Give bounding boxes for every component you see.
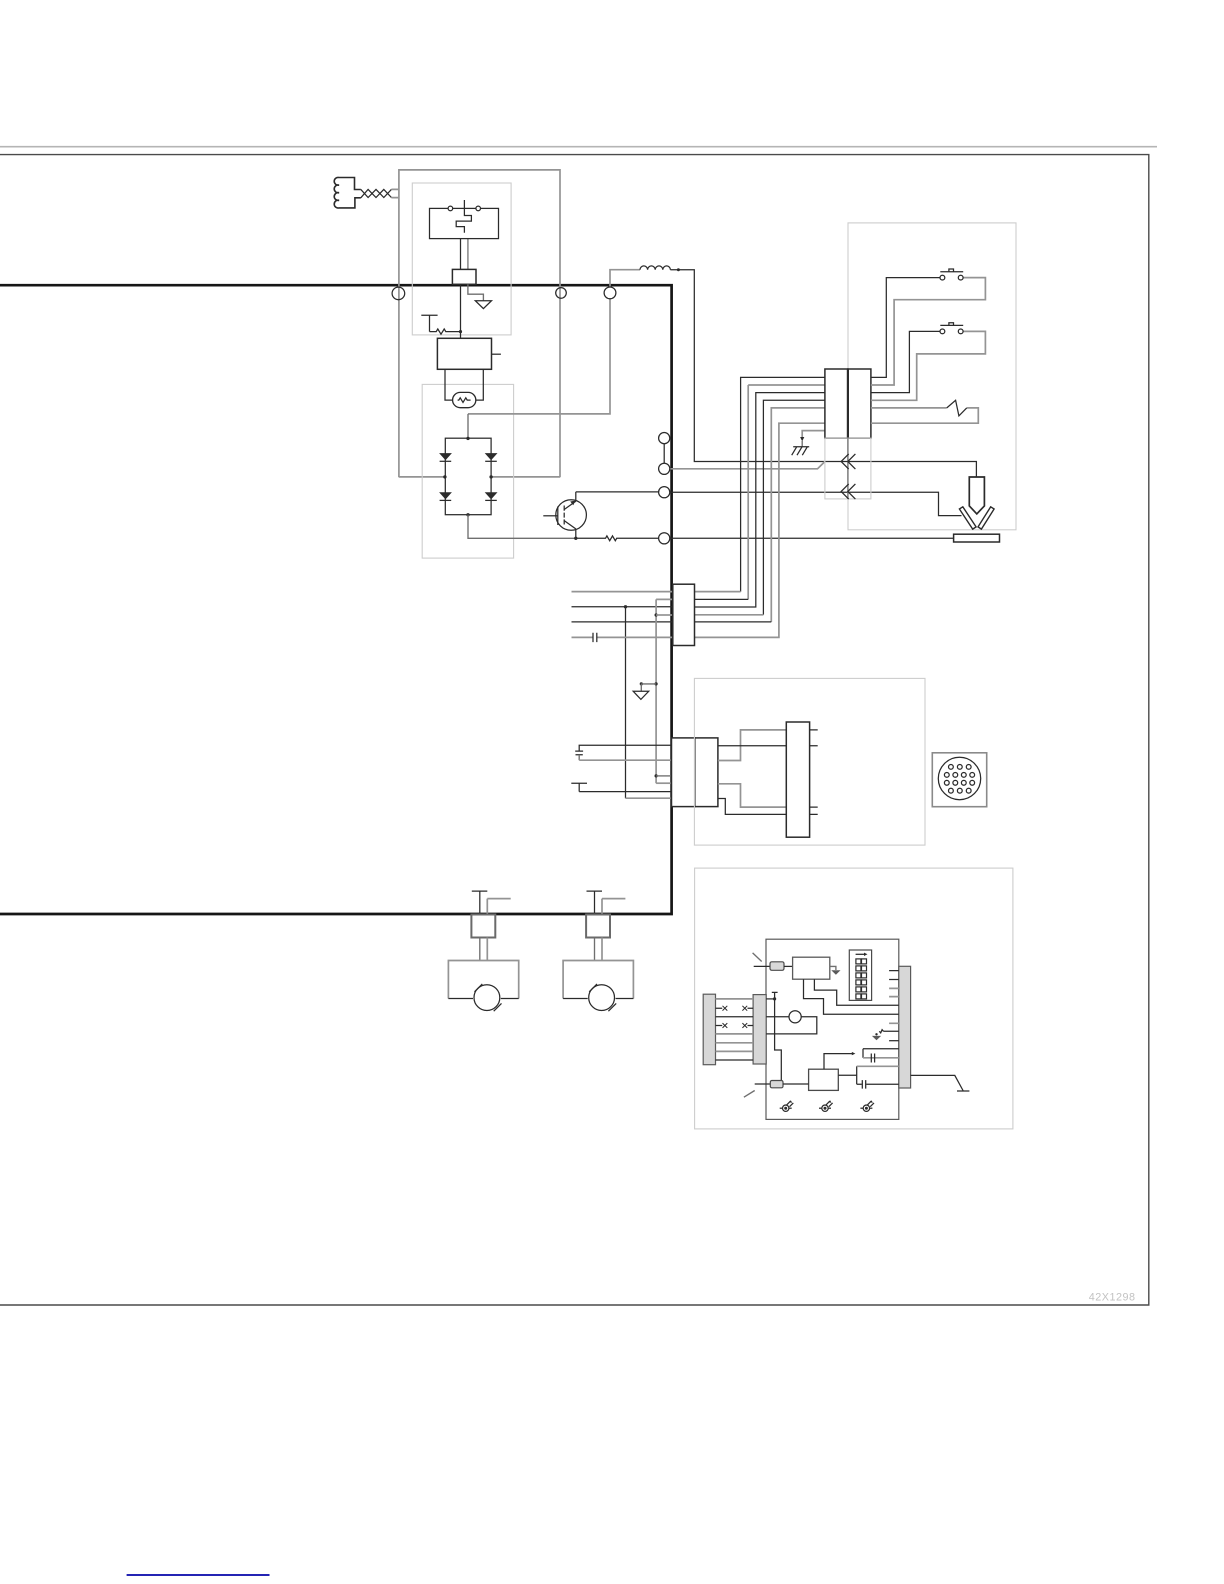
connector arrows (pair 2) xyxy=(841,484,855,499)
frame lead xyxy=(911,1075,970,1091)
edge connector stubs xyxy=(889,971,899,980)
connector J2 xyxy=(825,369,871,438)
spark gap bar xyxy=(954,534,1000,542)
engine boundary xyxy=(0,285,672,914)
ground (board) xyxy=(875,1033,877,1035)
page top rule xyxy=(0,146,1157,148)
node: coil primary junction xyxy=(459,330,462,333)
ignition armature boot xyxy=(334,177,399,208)
wire: J3 to J4 pin3 xyxy=(718,784,786,807)
node: ground bus arrow tap xyxy=(655,682,658,685)
grommet (right) xyxy=(604,287,616,299)
breaker points xyxy=(430,200,499,239)
timer box xyxy=(809,1069,839,1090)
wire: coil to spark plug (left) xyxy=(445,369,453,400)
cable wire 3 xyxy=(716,1016,754,1018)
condenser capacitor xyxy=(421,315,437,331)
ground (condenser) xyxy=(475,301,491,309)
grommet (mid) xyxy=(556,288,567,299)
edge connector bar xyxy=(899,966,911,1088)
wire: J2 to switch S1 left xyxy=(871,278,940,378)
diode D4 xyxy=(485,492,498,499)
ground stub with noise filter xyxy=(879,1030,899,1033)
wire: grommet4 to gap bar xyxy=(670,537,954,539)
connector J2 mating box xyxy=(825,438,871,499)
spark tester electrode xyxy=(969,477,984,514)
indicator loop with lamp xyxy=(766,1011,817,1034)
wire: lead B branch to connector J3 xyxy=(625,607,627,798)
switch S1 xyxy=(940,269,963,280)
coil terminal stub xyxy=(492,353,501,355)
wire: J2 to switch S2 right loop xyxy=(871,331,986,400)
wire: IC to edge bus 1 xyxy=(804,979,899,1014)
stator lead B xyxy=(572,606,673,608)
resistor R1 xyxy=(576,536,659,541)
J4 pin stubs xyxy=(810,730,818,815)
switch S2 xyxy=(940,323,963,334)
harness bundle wire 5 xyxy=(771,408,825,622)
harness bundle wire 1 xyxy=(741,377,825,591)
stator lead D xyxy=(572,636,673,638)
cable connector bar 2 xyxy=(753,995,766,1064)
connector J4 xyxy=(786,722,809,837)
wire: collector to grommet xyxy=(576,491,659,493)
ignition coil xyxy=(437,338,491,369)
terminal stub T xyxy=(571,783,587,791)
wire: condenser to ground xyxy=(468,284,484,301)
node: ground bus pin2 xyxy=(655,613,658,616)
node: bridge bottom xyxy=(466,513,469,516)
node: bridge right xyxy=(489,475,492,478)
stator lead A xyxy=(572,591,673,593)
wire: bridge AC tap left xyxy=(399,476,445,478)
wire: J3 capacitor loop top xyxy=(579,745,671,751)
chassis ground xyxy=(792,447,810,455)
cable wire 7 xyxy=(716,1050,754,1052)
transistor Q1 xyxy=(543,492,586,538)
grommet (left) xyxy=(392,287,405,300)
wire: grommet to bridge input xyxy=(468,299,610,414)
stator lead C xyxy=(572,621,673,623)
wire: inductor to connector (kill line) xyxy=(670,270,976,478)
connector mating line xyxy=(847,438,849,499)
grommet 3 xyxy=(659,487,670,498)
connector J3 xyxy=(672,738,718,807)
spark tester clip left blade xyxy=(959,507,976,529)
node: ground bus J3 tap xyxy=(655,774,658,777)
timer output network xyxy=(838,1066,856,1084)
wire: coil to spark plug (right) xyxy=(476,369,484,400)
regulator IC box xyxy=(793,957,830,979)
cable wire 1 xyxy=(716,998,754,1000)
spark tester clip right blade xyxy=(978,507,994,529)
diode D3 xyxy=(439,492,452,499)
braided lead xyxy=(361,189,392,197)
capacitor C2 xyxy=(593,633,597,642)
wire: grommet1 to grommet2 xyxy=(663,444,665,464)
grommet 2 xyxy=(659,463,670,474)
wire: stub to J3 xyxy=(579,791,671,793)
resistor block 2 xyxy=(755,1083,771,1085)
node: lead B branch xyxy=(624,605,627,608)
diode D2 xyxy=(485,453,498,460)
arrow lead xyxy=(824,1054,852,1070)
input wire xyxy=(754,965,770,967)
test point T xyxy=(772,992,782,1080)
wire: J3 capacitor loop bottom xyxy=(578,755,580,760)
node: bridge left xyxy=(443,475,446,478)
solenoid 2 xyxy=(563,891,633,1011)
cable wire 2 (twisted) xyxy=(716,1006,754,1011)
resistor block 1 xyxy=(770,962,784,971)
wire: grommet to inductor xyxy=(610,270,640,287)
circuit board xyxy=(766,939,899,1119)
breaker points module box xyxy=(412,183,511,335)
capacitor C4 xyxy=(871,1054,874,1063)
connector arrows (pair 1) xyxy=(841,454,855,469)
wire: grommet3 to spark tester clip xyxy=(670,492,962,515)
capacitor C3 xyxy=(575,751,583,755)
DIP switch block xyxy=(849,950,871,1000)
LED 1 xyxy=(780,1100,794,1111)
ground bus wire xyxy=(656,599,672,783)
wire: J2 to switch S2 left xyxy=(871,331,940,392)
svg-text:42X1298: 42X1298 xyxy=(1089,1292,1136,1304)
cable wire 6 xyxy=(716,1042,754,1044)
cable wire 8 xyxy=(716,1059,754,1061)
lower harness box xyxy=(694,678,925,845)
wire: IC to edge bus 2 xyxy=(814,979,898,1005)
wire: J2 to switch S1 right loop xyxy=(871,278,986,385)
wire: J3 to J4 pin2 xyxy=(718,745,786,747)
condenser xyxy=(452,269,476,284)
capacitor stage upper xyxy=(863,1049,899,1058)
spark plug xyxy=(453,392,476,407)
resistor (kill lead) xyxy=(430,329,461,334)
round connector J5 xyxy=(932,753,986,807)
LED 3 xyxy=(860,1100,874,1111)
wire: J3 to J4 pin4 xyxy=(718,799,786,815)
cable wire 4 (twisted) xyxy=(716,1023,754,1028)
bridge rectifier xyxy=(439,437,497,517)
node: inductor output xyxy=(677,268,680,271)
grommet 4 xyxy=(659,533,670,544)
harness bundle wire 2 xyxy=(748,385,825,599)
cable wire 5 xyxy=(716,1033,754,1035)
rectifier module box xyxy=(422,384,513,558)
capacitor C5 xyxy=(862,1080,865,1089)
footer link line xyxy=(127,1574,270,1576)
inductor xyxy=(640,266,670,270)
wire: points to coil primary xyxy=(460,239,462,339)
conductor break symbol xyxy=(947,400,967,416)
connector J1 xyxy=(673,584,695,645)
connector J2 ground lead xyxy=(802,431,825,438)
wire: J3 to J4 pin1 xyxy=(718,730,786,761)
ground (stator) xyxy=(633,691,649,699)
wire: J2 interrupted loop xyxy=(871,408,978,423)
ground (IC) xyxy=(830,966,836,970)
grommet 1 xyxy=(659,433,670,444)
cable connector bar 1 xyxy=(703,994,715,1064)
harness bundle wire 6 xyxy=(695,423,825,637)
node: emitter junction xyxy=(574,537,577,540)
wire: bridge AC tap right xyxy=(491,476,560,478)
LED 2 xyxy=(819,1100,833,1111)
solenoid 1 xyxy=(448,891,518,1011)
output lead diagonal xyxy=(744,1091,755,1098)
diode D1 xyxy=(439,453,452,460)
control module box xyxy=(848,223,1016,530)
kill-circuit wire loop (left leg, top, right leg) xyxy=(399,170,560,477)
wire: grommet to connector (diagonal join) xyxy=(670,462,825,469)
controller assembly box xyxy=(695,868,1013,1129)
wire: bridge output to transistor emitter xyxy=(468,515,576,539)
wire: points to condenser/ground xyxy=(467,239,469,270)
node: bridge top xyxy=(466,437,469,440)
harness bundle wire 3 xyxy=(695,393,825,607)
harness bundle wire 4 xyxy=(763,400,825,615)
input lead diagonal xyxy=(753,953,762,962)
